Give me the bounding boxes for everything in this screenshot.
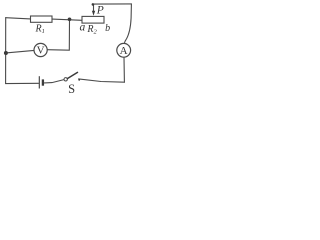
wire R1 to R2 [52, 19, 82, 20]
ammeter A [117, 43, 131, 57]
svg-text:S: S [68, 82, 75, 96]
voltmeter V [34, 43, 47, 56]
wire bottom right to switch [79, 79, 125, 82]
svg-text:A: A [120, 45, 128, 57]
wire top left to R1 [6, 18, 31, 19]
wire battery to switch [44, 80, 64, 83]
node slider wire corner [92, 3, 95, 6]
resistor R1 [31, 16, 53, 22]
battery cell negative plate [42, 79, 44, 85]
wire junction vertical to voltmeter branch [47, 19, 69, 50]
wire top right horizontal [94, 3, 132, 5]
wire right side curve down to ammeter [125, 4, 132, 44]
svg-text:P: P [96, 5, 104, 17]
svg-text:a: a [80, 22, 86, 34]
svg-text:R1: R1 [35, 23, 45, 35]
node junction dot [68, 18, 72, 22]
switch S lever [67, 72, 77, 78]
battery cell positive plate [38, 76, 40, 88]
svg-text:R2: R2 [86, 24, 97, 36]
wire left vertical [5, 18, 7, 84]
svg-text:V: V [37, 45, 45, 57]
wire below ammeter [123, 57, 125, 82]
wire slider stem [93, 4, 95, 11]
switch S pivot [64, 78, 67, 81]
wire voltmeter left branch [6, 50, 34, 53]
node dot on left wire [4, 51, 8, 55]
rheostat slider arrow P [92, 11, 95, 16]
rheostat R2 body [82, 16, 104, 23]
svg-text:b: b [105, 23, 110, 34]
wire bottom left to battery [6, 82, 39, 84]
switch S contact [78, 79, 80, 81]
